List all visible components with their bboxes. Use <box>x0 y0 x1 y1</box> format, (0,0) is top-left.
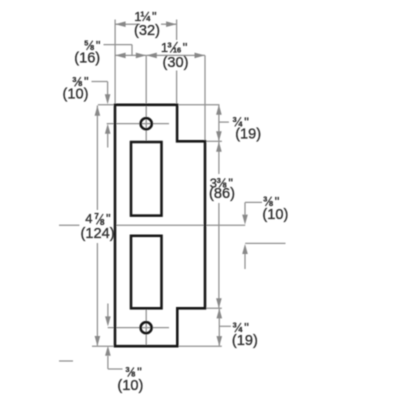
svg-text:3: 3 <box>72 75 76 84</box>
svg-text:3: 3 <box>217 176 221 185</box>
lower latch cutout <box>131 236 162 308</box>
wire dim 3-3-8 line upper <box>218 142 220 174</box>
arrow dim 3-3-8 bottom down <box>216 298 222 308</box>
svg-text:1: 1 <box>140 10 144 19</box>
bottom screw hole <box>141 322 152 333</box>
svg-text:(32): (32) <box>134 23 160 39</box>
arrow dim 3-8 right down <box>242 215 248 225</box>
wire dim 3-8 bottom upper tail <box>107 304 109 318</box>
arrow dim 3-8 top-left down <box>105 94 111 104</box>
svg-text:(19): (19) <box>232 333 258 349</box>
svg-text:(10): (10) <box>262 207 288 223</box>
node latch reference line <box>245 242 285 244</box>
svg-text:3: 3 <box>126 365 130 374</box>
wire dim 3-8 top-left lower tail <box>107 133 109 148</box>
wire dim 3-4 bottom-right line <box>218 309 220 346</box>
arrow dim 3-3-8 top up <box>216 142 222 152</box>
svg-text:(16): (16) <box>74 51 100 67</box>
wire dim 3-8 right lower tail <box>244 254 246 269</box>
node bottom hole horizontal centerline <box>108 327 169 329</box>
arrow dim 1-1-4 left <box>115 21 126 27</box>
svg-text:5: 5 <box>84 39 88 48</box>
svg-text:(19): (19) <box>235 126 261 142</box>
svg-text:(30): (30) <box>163 55 189 71</box>
svg-text:": " <box>183 40 188 55</box>
arrow dim 3-8 top-left up <box>105 124 111 134</box>
svg-text:": " <box>152 9 157 24</box>
upper latch cutout <box>131 142 162 216</box>
svg-text:4: 4 <box>85 211 92 226</box>
wire dim 1-1-4 line right part <box>161 23 177 25</box>
svg-text:(10): (10) <box>63 86 89 102</box>
svg-text:7: 7 <box>94 212 99 221</box>
svg-text:(10): (10) <box>117 378 143 394</box>
arrow dim 3-4 top-right down <box>216 131 222 141</box>
wire dim 3-8 bottom tail <box>107 356 109 369</box>
wire leader 5-8 vertical <box>131 45 133 56</box>
node stray dash bottom-left <box>59 360 73 362</box>
wire leader 3-8 right horizontal <box>245 201 262 203</box>
arrow dim 5-8 left <box>115 53 126 59</box>
node strike centerline left segment <box>59 224 79 226</box>
arrow dim 5-8 right <box>136 53 147 59</box>
arrow dim 4-7-8 bottom down <box>95 336 101 346</box>
wire leader 3-4 top-right <box>219 121 229 123</box>
svg-text:3: 3 <box>263 195 267 204</box>
arrow dim 3-8 bottom up <box>105 346 111 356</box>
wire leader 3-8 top-left horizontal <box>92 81 108 83</box>
wire ext dim-1-1-4 left vertical <box>114 20 116 104</box>
wire ext lip-top-step <box>206 140 222 142</box>
wire ext plate-top-right <box>179 104 220 106</box>
node top hole horizontal centerline <box>107 123 169 125</box>
strike plate outline <box>115 105 205 346</box>
svg-text:(86): (86) <box>209 186 235 202</box>
wire dim 1-1-4 line left part <box>115 23 140 25</box>
wire dim 5-8 line <box>115 54 146 56</box>
wire ext plate-top-left <box>98 104 114 106</box>
top screw hole <box>141 118 152 129</box>
wire dim 4-7-8 line lower <box>96 243 98 346</box>
arrow dim 3-4 bottom-right up <box>217 308 223 318</box>
wire dim 13-16 line <box>146 54 205 56</box>
arrow dim 4-7-8 top up <box>95 106 101 116</box>
arrow dim 3-4 bottom-right down <box>217 336 223 346</box>
wire ext lip-bottom-step <box>206 307 222 309</box>
wire ext plate-bottom-right <box>179 345 222 347</box>
wire leader 3-8 top-left vertical <box>107 82 109 96</box>
wire dim 3-4 top-right line <box>218 105 220 141</box>
wire ext plate-bottom-left <box>92 345 114 347</box>
wire leader 3-8 bottom horizontal <box>108 368 123 370</box>
wire dim 4-7-8 line upper <box>96 106 98 211</box>
wire leader 3-4 bottom-right <box>219 325 231 327</box>
arrow dim 1-1-4 right <box>166 21 177 27</box>
node strike centerline main segment <box>116 224 245 226</box>
wire ext lip-right vertical <box>204 55 206 140</box>
arrow dim 13-16 left <box>146 53 157 59</box>
arrow dim 3-4 top-right up <box>216 105 222 115</box>
wire leader 3-8 right vertical <box>244 202 246 214</box>
svg-text:3: 3 <box>233 115 237 124</box>
svg-text:3: 3 <box>168 40 172 49</box>
wire ext dim-1-1-4 right vertical lower <box>176 71 178 104</box>
svg-text:3: 3 <box>233 321 237 330</box>
svg-text:16: 16 <box>173 45 181 54</box>
wire ext dim-1-1-4 right vertical upper <box>176 20 178 41</box>
node bottom hole vertical centerline <box>145 308 147 345</box>
svg-text:": " <box>106 211 111 226</box>
arrow dim 13-16 right <box>195 53 206 59</box>
wire dim 3-3-8 line lower <box>218 203 220 308</box>
arrow dim 3-8 right up <box>242 244 248 254</box>
node top hole vertical centerline <box>145 55 147 141</box>
arrow dim 3-8 bottom down <box>105 316 111 326</box>
wire leader 5-8 horizontal <box>104 44 133 46</box>
svg-text:(124): (124) <box>81 226 115 242</box>
